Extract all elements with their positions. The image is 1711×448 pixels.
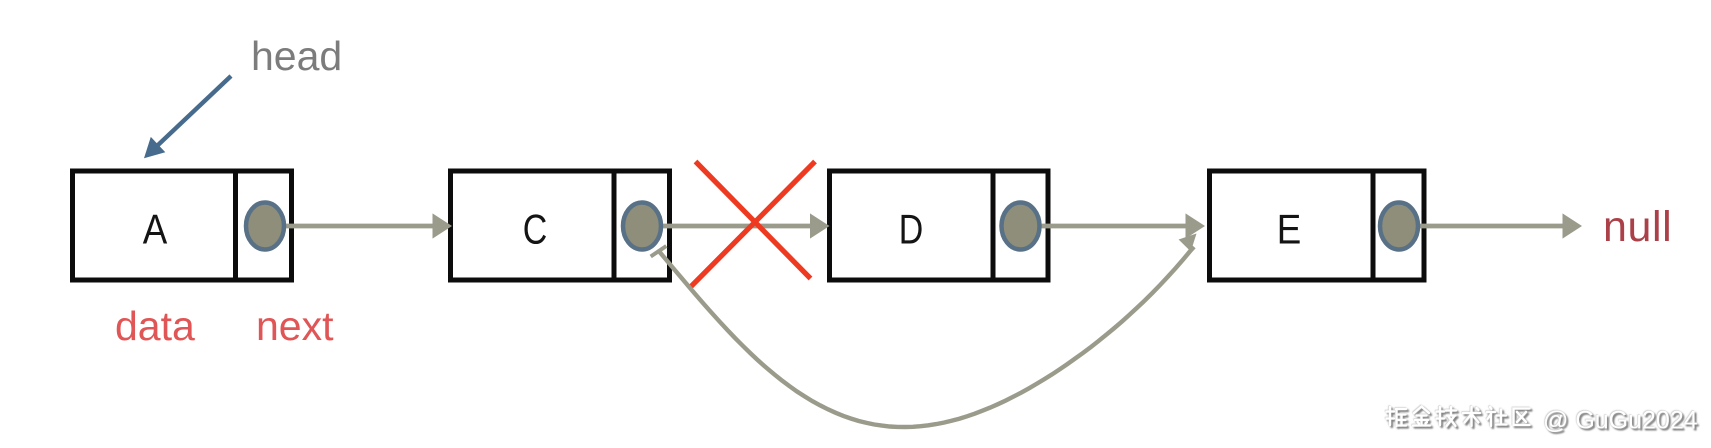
掘	[1387, 407, 1407, 426]
svg-text:C: C	[523, 206, 548, 253]
wire: arrow C to D	[642, 213, 830, 238]
wire: arrow D to E	[1020, 213, 1205, 238]
node A next pointer dot	[246, 203, 284, 250]
node D next pointer dot	[1002, 203, 1040, 250]
svg-text:A: A	[143, 206, 168, 253]
svg-text:D: D	[899, 206, 924, 253]
node A box	[73, 171, 292, 280]
wire: arrow E to null	[1399, 213, 1582, 238]
wire: arrow A to C	[265, 213, 452, 238]
wire: curved arrow C to E	[651, 234, 1197, 428]
node E next pointer dot	[1380, 203, 1418, 250]
svg-text:next: next	[256, 303, 334, 349]
svg-text:@ GuGu2024: @ GuGu2024	[1543, 407, 1698, 435]
svg-text:E: E	[1277, 206, 1302, 253]
node D box	[830, 171, 1049, 280]
区	[1514, 409, 1530, 426]
金	[1413, 407, 1430, 426]
术	[1463, 407, 1480, 426]
技	[1437, 407, 1457, 426]
svg-text:head: head	[251, 33, 342, 79]
svg-text:null: null	[1603, 203, 1672, 251]
node E box	[1210, 171, 1425, 280]
svg-text:data: data	[115, 303, 195, 349]
node C next pointer dot	[623, 203, 661, 250]
watermark (fake CJK glyphs + latin)	[1387, 407, 1698, 435]
node C box	[451, 171, 670, 280]
wire: head arrow	[144, 76, 231, 158]
社	[1487, 407, 1507, 426]
red X cross over C-D link	[691, 162, 816, 288]
